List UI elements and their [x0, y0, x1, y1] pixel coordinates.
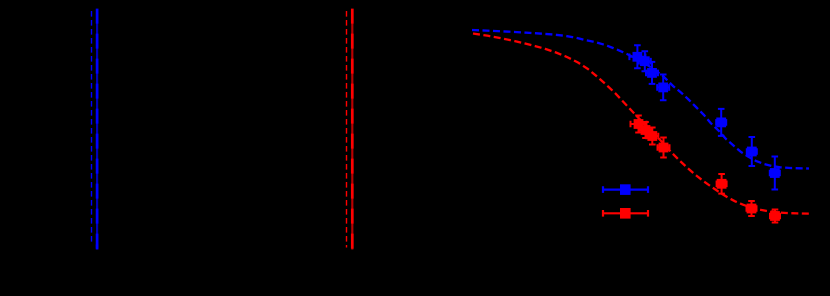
red data point 1 error bars: [631, 116, 647, 133]
legend: blue entry square marker: [620, 184, 631, 195]
left panel: red lower-bound dashed vertical line: [346, 11, 348, 248]
blue data point 2 square marker: [640, 56, 650, 66]
red data point 6 square marker: [747, 204, 757, 214]
red data point 4 error bars: [658, 138, 670, 158]
red data point 7 square marker: [770, 211, 780, 221]
left panel: blue lower-bound dashed vertical line: [91, 11, 93, 244]
legend: blue entry error bar: [603, 186, 648, 193]
blue data point 6 square marker: [747, 147, 757, 157]
left panel: blue central-value dash-dot vertical line: [96, 10, 98, 249]
blue data point 4 error bars: [657, 75, 669, 101]
blue data point 5 error bars: [716, 109, 726, 136]
right panel: blue dashed sigmoid fit curve: [472, 30, 809, 169]
red data point 5 error bars: [717, 174, 727, 194]
blue data point 1 error bars: [629, 45, 645, 68]
red data point 3 square marker: [647, 131, 657, 141]
blue data point 4 square marker: [658, 83, 668, 93]
blue data point 5 square marker: [716, 118, 726, 128]
red data point 1 square marker: [634, 119, 644, 129]
blue data point 3 error bars: [646, 62, 658, 84]
left panel: red central-value dash-dot vertical line: [351, 10, 353, 250]
red data point 3 error bars: [646, 128, 658, 145]
red data point 6 error bars: [747, 201, 757, 216]
red data point 5 square marker: [717, 179, 727, 189]
red data point 2 error bars: [640, 122, 652, 138]
left panel: blue central line bottom segment: [96, 245, 99, 250]
blue data point 2 error bars: [639, 51, 651, 71]
legend: red entry error bar: [603, 210, 648, 217]
red data point 7 error bars: [770, 210, 780, 223]
red data point 2 square marker: [641, 125, 651, 135]
blue data point 6 error bars: [747, 137, 757, 166]
blue data point 7 error bars: [770, 157, 780, 190]
blue data point 3 square marker: [647, 68, 657, 78]
blue data point 7 square marker: [770, 168, 780, 178]
blue data point 1 square marker: [633, 52, 643, 62]
legend: red entry square marker: [620, 208, 631, 219]
red data point 4 square marker: [659, 143, 669, 153]
right panel: red dashed sigmoid fit curve: [473, 34, 809, 214]
